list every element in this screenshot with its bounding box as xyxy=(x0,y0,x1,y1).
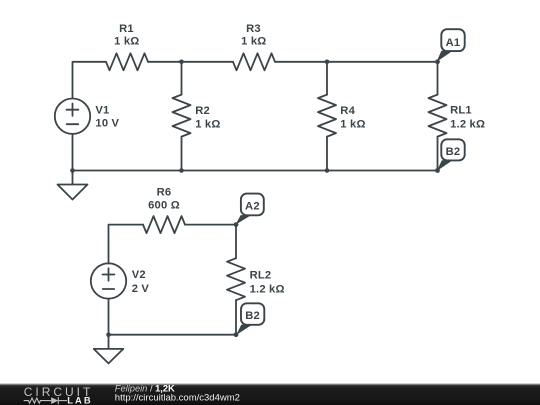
svg-text:R6: R6 xyxy=(157,186,172,198)
wire top rail segment V1 to R1 xyxy=(73,62,107,98)
callout wedge A1 xyxy=(437,51,453,62)
svg-text:V1: V1 xyxy=(95,105,109,117)
svg-text:V2: V2 xyxy=(132,269,146,281)
svg-text:600 Ω: 600 Ω xyxy=(148,200,180,212)
logo diode triangle xyxy=(51,397,58,404)
logo resistor-diode glyph xyxy=(24,397,67,404)
node junction dot R4 bottom xyxy=(325,168,330,173)
wire bottom rail xyxy=(73,170,438,172)
svg-text:R3: R3 xyxy=(246,23,261,35)
svg-text:B2: B2 xyxy=(245,310,260,322)
node B2 dot bottom circuit xyxy=(234,332,239,337)
node label box A2 xyxy=(241,194,264,216)
svg-text:1.2 kΩ: 1.2 kΩ xyxy=(450,119,485,131)
svg-text:2 V: 2 V xyxy=(132,283,150,295)
svg-text:R1: R1 xyxy=(119,23,134,35)
resistor R1 xyxy=(106,53,148,70)
resistor R2 xyxy=(181,62,183,95)
svg-text:1.2 kΩ: 1.2 kΩ xyxy=(250,283,285,295)
node junction dot R4 top xyxy=(325,60,330,65)
svg-text:10 V: 10 V xyxy=(95,118,119,130)
node label box B2 bottom xyxy=(241,303,264,325)
svg-text:LAB: LAB xyxy=(67,394,93,405)
wire R6 to node A2 xyxy=(185,224,236,226)
wire R3 to node A1 xyxy=(275,61,438,63)
resistor R4 xyxy=(326,62,328,95)
svg-text:R4: R4 xyxy=(340,105,355,117)
resistor RL1 xyxy=(437,62,439,95)
svg-text:R2: R2 xyxy=(195,105,210,117)
svg-text:1 kΩ: 1 kΩ xyxy=(241,36,266,48)
svg-text:1 kΩ: 1 kΩ xyxy=(114,36,139,48)
node A2 dot xyxy=(234,222,239,227)
resistor R3 xyxy=(233,53,275,70)
node B2 dot top circuit xyxy=(435,168,440,173)
node junction dot R2 bottom xyxy=(179,168,184,173)
node junction dot ground rail V2 xyxy=(106,332,111,337)
ground top circuit xyxy=(58,171,88,200)
wire A2 to RL2 xyxy=(235,225,237,259)
resistor R6 xyxy=(143,216,185,233)
wire V1 bottom to ground rail xyxy=(72,134,74,171)
node label box B2 top xyxy=(441,139,464,160)
node A1 dot xyxy=(435,59,440,64)
svg-text:B2: B2 xyxy=(446,146,461,158)
node junction dot R2 top xyxy=(179,60,184,65)
svg-text:RL1: RL1 xyxy=(450,105,472,117)
resistor RL2 xyxy=(227,258,245,300)
wire V2 bottom xyxy=(108,299,110,335)
node label box A1 xyxy=(441,29,464,51)
svg-text:1 kΩ: 1 kΩ xyxy=(340,119,365,131)
ground bottom circuit xyxy=(94,335,124,364)
svg-text:1 kΩ: 1 kΩ xyxy=(195,119,220,131)
wire R1 to R3 xyxy=(148,61,233,63)
callout wedge B2 bottom xyxy=(236,325,252,335)
svg-text:RL2: RL2 xyxy=(250,269,272,281)
voltage source V1 xyxy=(55,99,90,134)
callout wedge B2 top xyxy=(437,160,453,171)
wire bottom rail circuit 2 xyxy=(109,334,237,336)
wire V2 top rail xyxy=(109,225,144,264)
voltage source V2 xyxy=(91,263,126,298)
node junction dot ground rail V1 xyxy=(70,168,75,173)
svg-text:A1: A1 xyxy=(446,37,461,49)
svg-text:A2: A2 xyxy=(245,201,260,213)
callout wedge A2 xyxy=(235,215,251,225)
svg-text:http://circuitlab.com/c3d4wm2: http://circuitlab.com/c3d4wm2 xyxy=(115,392,240,403)
